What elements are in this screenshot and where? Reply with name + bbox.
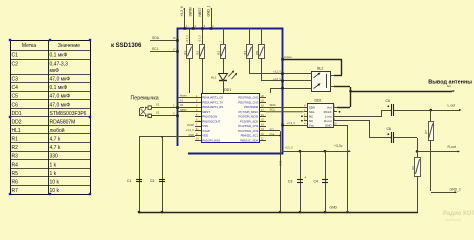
svg-text:PC7/SPI_MISO: PC7/SPI_MISO: [239, 110, 260, 114]
svg-text:C6: C6: [12, 102, 19, 108]
svg-text:HL1: HL1: [211, 76, 217, 80]
svg-text:PB5/I2C_SDA: PB5/I2C_SDA: [240, 138, 258, 142]
svg-text:VCAP: VCAP: [202, 129, 210, 133]
svg-text:+3,3_V: +3,3_V: [287, 121, 296, 125]
svg-text:R1: R1: [12, 137, 19, 143]
svg-text:SDA: SDA: [269, 133, 275, 137]
svg-text:SDA: SDA: [152, 36, 160, 40]
svg-text:PD3/TIM2_CH2: PD3/TIM2_CH2: [238, 96, 258, 100]
svg-text:PC4/TIM1_CH4: PC4/TIM1_CH4: [238, 124, 258, 128]
svg-text:R3: R3: [12, 154, 19, 160]
svg-text:+3,3_V: +3,3_V: [285, 146, 294, 150]
svg-text:R6: R6: [12, 179, 19, 185]
svg-text:C5: C5: [12, 94, 19, 100]
svg-text:PB4/I2C_SCL: PB4/I2C_SCL: [241, 134, 259, 138]
svg-text:SDA: SDA: [309, 106, 315, 110]
svg-text:VCAP: VCAP: [187, 123, 194, 127]
svg-text:мкФ: мкФ: [50, 68, 60, 74]
svg-text:Перемычка: Перемычка: [131, 96, 159, 102]
svg-text:PD6/UART1_RX: PD6/UART1_RX: [202, 105, 223, 109]
svg-text:R5: R5: [12, 171, 19, 177]
svg-text:VDD: VDD: [202, 134, 208, 138]
svg-text:+3,3_V: +3,3_V: [187, 35, 189, 43]
svg-text:NRST: NRST: [202, 110, 210, 114]
svg-text:L-out: L-out: [448, 104, 456, 108]
svg-text:10 k: 10 k: [50, 179, 60, 185]
svg-text:PA3/SPI_NSS: PA3/SPI_NSS: [202, 138, 220, 142]
svg-text:PC5/SPI_SCK: PC5/SPI_SCK: [240, 119, 258, 123]
svg-text:Радио КОТ: Радио КОТ: [443, 211, 474, 217]
svg-text:RCLK: RCLK: [324, 110, 332, 114]
svg-text:47,0 мкФ: 47,0 мкФ: [50, 94, 71, 100]
svg-text:PD2/TIM2_CH3: PD2/TIM2_CH3: [238, 100, 258, 104]
svg-text:GND: GND: [280, 160, 283, 166]
svg-text:4,7 k: 4,7 k: [50, 145, 61, 151]
svg-text:+3,3_V: +3,3_V: [180, 5, 184, 16]
svg-text:PD5/UART1_TX: PD5/UART1_TX: [202, 100, 223, 104]
svg-text:R6: R6: [411, 166, 415, 170]
svg-text:+: +: [304, 176, 306, 180]
svg-text:R5: R5: [255, 51, 259, 55]
svg-text:R7: R7: [424, 130, 428, 134]
svg-text:C6: C6: [387, 127, 391, 131]
svg-text:GND: GND: [325, 123, 333, 127]
svg-text:R1: R1: [183, 51, 187, 55]
svg-text:R-out: R-out: [448, 145, 456, 149]
svg-text:+3,3v: +3,3v: [334, 144, 343, 148]
svg-text:Значение: Значение: [58, 43, 80, 49]
svg-text:NRST: NRST: [198, 8, 202, 17]
svg-text:0,1 мкФ: 0,1 мкФ: [50, 85, 68, 91]
svg-text:C4: C4: [12, 85, 19, 91]
svg-text:PD1/SWIM: PD1/SWIM: [244, 105, 259, 109]
svg-text:C1: C1: [12, 53, 19, 59]
svg-text:GND: GND: [329, 206, 337, 210]
svg-text:SDA: SDA: [270, 103, 276, 107]
svg-text:C3: C3: [12, 77, 19, 83]
svg-text:X2: X2: [156, 111, 160, 115]
svg-text:C1: C1: [127, 179, 131, 183]
svg-text:radiokot.ru: radiokot.ru: [446, 218, 461, 222]
svg-text:R3: R3: [216, 51, 220, 55]
svg-text:RDA5807M: RDA5807M: [50, 119, 76, 125]
svg-text:R2: R2: [12, 145, 19, 151]
svg-text:4,7 k: 4,7 k: [50, 137, 61, 143]
svg-text:SCL: SCL: [270, 108, 276, 112]
svg-text:GND: GND: [188, 133, 194, 137]
svg-text:C3: C3: [288, 179, 292, 183]
svg-text:SWIM: SWIM: [189, 7, 193, 16]
svg-text:GND_2: GND_2: [450, 187, 461, 191]
svg-text:GND_1: GND_1: [206, 5, 210, 16]
svg-text:PA2/OSCOUT: PA2/OSCOUT: [202, 119, 220, 123]
svg-text:STM8S003F3P6: STM8S003F3P6: [50, 111, 87, 117]
svg-text:SCL: SCL: [152, 47, 159, 51]
svg-text:X1: X1: [156, 102, 160, 106]
svg-text:BL1: BL1: [317, 66, 323, 70]
svg-text:Anten: Anten: [284, 55, 292, 59]
svg-text:C2: C2: [150, 179, 154, 183]
svg-text:PD4/UART1_CK: PD4/UART1_CK: [202, 96, 223, 100]
svg-text:330: 330: [50, 154, 59, 160]
svg-text:NRST: NRST: [180, 109, 187, 112]
svg-text:PC6/SPI_MOSI: PC6/SPI_MOSI: [239, 115, 259, 119]
svg-text:SCL: SCL: [309, 110, 315, 114]
svg-text:R7: R7: [12, 188, 19, 194]
svg-text:Метка: Метка: [22, 43, 36, 49]
svg-text:C2: C2: [12, 62, 19, 68]
svg-text:DD1: DD1: [224, 88, 231, 92]
svg-text:47,0 мкФ: 47,0 мкФ: [50, 102, 71, 108]
svg-text:R4: R4: [243, 51, 247, 55]
svg-text:Ant: Ant: [327, 106, 332, 110]
svg-text:к SSD1306: к SSD1306: [111, 43, 142, 49]
svg-text:1 k: 1 k: [50, 162, 57, 168]
svg-text:DD1: DD1: [12, 111, 22, 117]
svg-text:DD2: DD2: [12, 119, 22, 125]
svg-text:любой: любой: [50, 127, 65, 134]
svg-text:VSS: VSS: [202, 124, 208, 128]
svg-text:Ant: Ant: [447, 84, 451, 88]
svg-text:C5: C5: [386, 99, 390, 103]
svg-text:+3,3_V: +3,3_V: [186, 128, 195, 132]
svg-text:0,1 мкФ: 0,1 мкФ: [50, 53, 68, 59]
svg-text:R2: R2: [195, 51, 199, 55]
svg-text:0,47-3,3: 0,47-3,3: [50, 62, 69, 68]
svg-text:+3,3_V: +3,3_V: [273, 71, 281, 74]
svg-text:R-out: R-out: [324, 119, 332, 123]
svg-text:+3,3_V: +3,3_V: [200, 35, 202, 43]
svg-text:1 k: 1 k: [50, 171, 57, 177]
svg-text:Vcc: Vcc: [309, 123, 315, 127]
svg-text:DD2: DD2: [315, 99, 322, 103]
svg-text:PA1/OSCIN: PA1/OSCIN: [202, 115, 217, 119]
svg-text:Anten: Anten: [180, 95, 187, 98]
svg-text:C4: C4: [314, 179, 318, 183]
svg-text:SCL: SCL: [269, 128, 275, 132]
svg-text:R4: R4: [12, 162, 19, 168]
svg-text:+3,3_V: +3,3_V: [273, 78, 281, 81]
svg-text:47,0 мкФ: 47,0 мкФ: [50, 77, 71, 83]
svg-text:PC3/TIM1_CH3: PC3/TIM1_CH3: [238, 129, 258, 133]
svg-text:L-out: L-out: [325, 115, 332, 119]
